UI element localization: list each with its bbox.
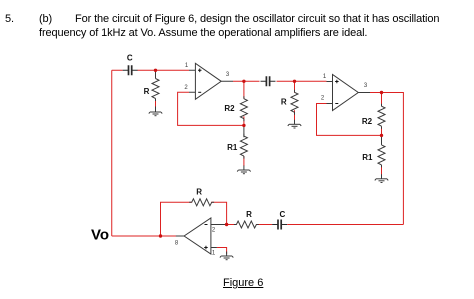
- svg-text:R: R: [281, 98, 287, 107]
- svg-text:R: R: [144, 87, 150, 96]
- svg-text:3: 3: [226, 72, 230, 78]
- svg-text:C: C: [127, 53, 133, 62]
- svg-text:R: R: [246, 210, 252, 219]
- svg-text:C: C: [280, 210, 286, 219]
- svg-text:8: 8: [175, 241, 179, 247]
- svg-text:1: 1: [185, 63, 189, 69]
- svg-text:2: 2: [321, 96, 325, 102]
- svg-text:2: 2: [212, 228, 216, 234]
- svg-text:R1: R1: [227, 143, 238, 152]
- svg-text:R2: R2: [362, 117, 373, 126]
- svg-text:R2: R2: [224, 104, 235, 113]
- svg-text:1: 1: [212, 251, 216, 257]
- svg-text:Vo: Vo: [91, 227, 109, 244]
- svg-text:R1: R1: [362, 153, 373, 162]
- svg-text:3: 3: [364, 83, 368, 89]
- svg-text:2: 2: [184, 85, 188, 91]
- svg-text:R: R: [196, 187, 202, 196]
- svg-text:1: 1: [323, 74, 327, 80]
